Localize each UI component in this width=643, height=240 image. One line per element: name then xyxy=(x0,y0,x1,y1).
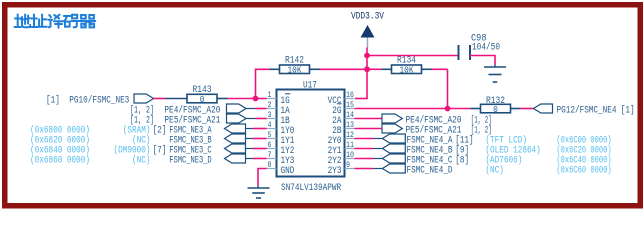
svg-text:GND: GND xyxy=(281,166,295,177)
svg-text:0: 0 xyxy=(493,104,498,115)
svg-text:U17: U17 xyxy=(303,81,317,92)
svg-text:7: 7 xyxy=(268,150,272,160)
svg-text:10K: 10K xyxy=(288,65,302,76)
svg-text:1: 1 xyxy=(268,90,272,100)
svg-text:8: 8 xyxy=(268,160,272,170)
svg-text:(0x6860 0000): (0x6860 0000) xyxy=(30,155,90,167)
svg-text:PG12/FSMC_NE4: PG12/FSMC_NE4 xyxy=(557,105,617,117)
svg-text:[7]: [7] xyxy=(153,145,167,157)
svg-text:[1]: [1] xyxy=(46,95,60,107)
svg-text:2: 2 xyxy=(268,100,272,110)
svg-text:4: 4 xyxy=(268,120,272,130)
svg-text:104/50: 104/50 xyxy=(472,42,500,54)
svg-text:VDD3.3V: VDD3.3V xyxy=(351,12,384,23)
svg-text:12: 12 xyxy=(346,130,354,140)
svg-text:10K: 10K xyxy=(400,65,414,76)
svg-text:(0x6C60 0000): (0x6C60 0000) xyxy=(556,165,611,177)
svg-text:10: 10 xyxy=(346,150,354,160)
svg-text:2Y3: 2Y3 xyxy=(328,166,342,177)
svg-text:[1]: [1] xyxy=(621,105,635,117)
svg-text:(NC): (NC) xyxy=(132,155,151,167)
svg-text:11: 11 xyxy=(346,140,354,150)
svg-text:(NC): (NC) xyxy=(485,165,504,177)
svg-text:15: 15 xyxy=(346,100,354,110)
svg-text:0: 0 xyxy=(200,94,205,105)
svg-text:16: 16 xyxy=(346,90,354,100)
svg-text:[2]: [2] xyxy=(153,125,167,137)
svg-text:14: 14 xyxy=(346,110,354,120)
svg-text:6: 6 xyxy=(268,140,272,150)
svg-text:FSMC_NE4_D: FSMC_NE4_D xyxy=(407,166,453,177)
svg-text:5: 5 xyxy=(268,130,272,140)
svg-text:3: 3 xyxy=(268,110,272,120)
svg-text:FSMC_NE3_D: FSMC_NE3_D xyxy=(169,156,212,167)
svg-text:[8]: [8] xyxy=(455,155,469,167)
svg-text:13: 13 xyxy=(346,120,354,130)
svg-text:SN74LV139APWR: SN74LV139APWR xyxy=(281,183,341,194)
svg-text:PG10/FSMC_NE3: PG10/FSMC_NE3 xyxy=(69,95,129,107)
svg-text:9: 9 xyxy=(346,160,350,170)
